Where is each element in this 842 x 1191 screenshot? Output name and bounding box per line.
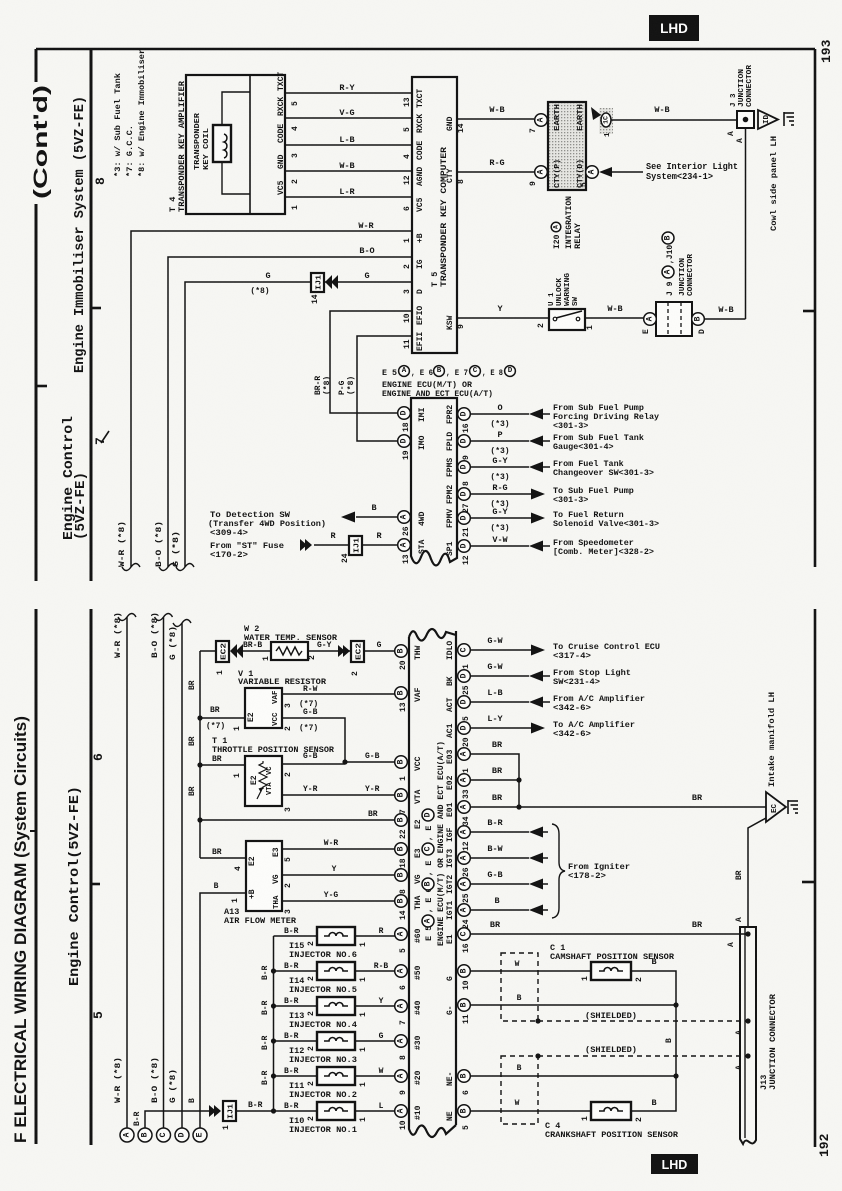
wire L-Y AC1 to A/C amplifier <box>470 727 531 729</box>
ground ID triangle cowl side panel <box>758 110 778 129</box>
wire L-B ACT from A/C amplifier <box>470 701 529 703</box>
crankshaft position sensor C4 box <box>591 1102 631 1120</box>
bottom ECU left pin VAF 13(B) <box>395 687 408 700</box>
wire BR bus to ECU E2 <box>200 819 395 821</box>
wire V-G T4 pin 4 to T5 pin 5 <box>285 117 412 119</box>
tick right rule y311 <box>803 310 815 313</box>
check connector EC2 no.1 <box>200 650 216 652</box>
amplifier T4 outer box <box>186 75 285 214</box>
frame left outer rule upper <box>35 49 38 581</box>
LHD box bottom <box>651 1154 698 1174</box>
ECU pin IMI 18(D) <box>398 407 411 420</box>
J9 pin E(A) <box>644 313 657 326</box>
continuation wire G (*8) bottom section <box>181 623 183 1128</box>
bottom ECU left pin #20 9(A) <box>395 1070 408 1083</box>
frame top rule <box>36 48 815 51</box>
wire W-B relay to J3 <box>611 119 737 121</box>
air flow meter A13 box <box>246 841 282 911</box>
frame left outer rule lower <box>35 609 38 1144</box>
wire BR E1 to J13 <box>470 933 748 935</box>
wire BR E01 to EC ground <box>470 806 766 808</box>
shielded dashed drain C1 to J13 <box>538 1020 748 1022</box>
relay pin 5A CTY(D) <box>586 166 599 179</box>
switch U1 unlock warning sw box <box>549 309 585 330</box>
injector supply B-R bus <box>273 936 275 1111</box>
bottom ECU box with torn top and bottom <box>409 629 456 1137</box>
wire G from T5 D through IJ1 down left side <box>324 281 412 283</box>
V1 pin 2 wire G-B (*7) <box>282 718 345 762</box>
ECU pin 4WD 26(A) <box>398 511 411 524</box>
computer T5 box <box>412 77 457 353</box>
wire J3 down to J9 row <box>745 128 747 319</box>
ECU pin STA 13(A) <box>398 539 411 552</box>
tick outer rule y386 <box>36 385 47 388</box>
shielded dashed drain C4 to J13 <box>538 1055 748 1057</box>
junction connector IJ1 (ST fuse) <box>349 536 362 555</box>
V1 pin 3 wire R-W (*7) to VAF <box>282 693 395 695</box>
wire W NE pin to crankshaft sensor <box>470 1110 591 1112</box>
wire W-B T4 pin 2 to T5 pin 12 <box>285 170 412 172</box>
wire R-Y T4 pin 5 to T5 pin 13 <box>285 92 412 94</box>
brace grouping igniter wires <box>552 824 565 918</box>
relay pin 9A <box>535 166 548 179</box>
wire R-G T5 CTY to relay CTY(P) <box>457 171 534 173</box>
tick right rule y882 <box>802 881 815 884</box>
wire BR-R from T5 EFIO to ECU IMI <box>330 311 412 413</box>
sidebar title (Cont'd) <box>28 82 56 204</box>
wire end hook B-O <box>159 564 177 571</box>
frame left inner rule upper <box>90 49 93 581</box>
A13 pin 2 wire Y to VG <box>282 874 395 876</box>
wire R from ST fuse through IJ1 to ECU STA <box>314 544 349 546</box>
bottom ECU left pin THA 14(B) <box>395 895 408 908</box>
bottom ECU left pin #10 10(A) <box>395 1105 408 1118</box>
A13 pin 5 wire W-R to E3 <box>282 848 395 850</box>
wire B to detection SW from ECU 4WD <box>356 516 397 518</box>
junction connector IJ1 (injector feed) <box>236 1110 274 1112</box>
ECU fragment box with torn bottom <box>411 398 457 566</box>
wire L-B T4 pin 3 to T5 pin 4 <box>285 144 412 146</box>
wire end hook G <box>176 564 194 571</box>
wire W-B T5 GND to relay EARTH <box>457 118 534 120</box>
relay pin 7A <box>535 114 548 127</box>
injector I11 INJECTOR NO.2 <box>274 1075 318 1077</box>
frame right rule upper <box>814 49 817 567</box>
arrow from ST fuse <box>300 539 312 551</box>
wire G-W BK from stop light <box>470 675 529 677</box>
junction connector J3 box <box>737 111 754 128</box>
junction connector IJ1 (top) <box>311 273 324 292</box>
bottom ECU left pin #60 5(A) <box>395 928 408 941</box>
J9 pin D(B) <box>692 313 705 326</box>
wire BR E02 join <box>470 779 519 781</box>
wire G EC2 to THW <box>364 650 395 652</box>
bottom ECU left pin VG 8(B) <box>395 869 408 882</box>
injector I12 INJECTOR NO.3 <box>274 1040 318 1042</box>
arrow into IJ1 <box>325 275 338 289</box>
wire G-B IGT2 from igniter <box>470 883 529 885</box>
continuation wire B-O (*8) bottom section <box>163 617 165 1128</box>
bottom ECU left pin VTA 7(B) <box>395 789 408 802</box>
wire end hook W-R <box>122 564 140 571</box>
A13 pin 4 wire BR to bus <box>200 857 246 859</box>
T1 pin 3 wire Y-R to VTA <box>282 794 395 796</box>
T1 pin 2 wire G-B to VCC <box>282 763 345 765</box>
bottom ECU left pin #30 8(A) <box>395 1035 408 1048</box>
wire BR E03 to ground bus <box>470 754 519 807</box>
wire P-G from T5 EFII to ECU IMO <box>357 336 412 441</box>
wire B-R from IJ1 to circle B <box>145 1111 210 1128</box>
ground triangle EC intake manifold LH <box>766 792 786 822</box>
sensor ground BR bus <box>199 651 201 858</box>
wire B from A13 +B to circle E <box>200 893 246 1128</box>
wire L-R T4 pin 1 to T5 pin 6 <box>285 196 412 198</box>
T1 pin 1 wire BR to bus <box>200 764 245 766</box>
wire B NE- pin <box>470 1075 676 1077</box>
injector I14 INJECTOR NO.5 <box>274 970 318 972</box>
shield dashed box C4 <box>501 1056 538 1124</box>
injector I10 INJECTOR NO.1 <box>274 1110 318 1112</box>
connector circle D <box>175 1128 189 1142</box>
shield dashed box C1 <box>501 953 538 1021</box>
wire B G- pin <box>470 1004 676 1006</box>
transponder key coil wire loop <box>222 92 250 125</box>
connector circle A <box>120 1128 134 1142</box>
bottom ECU left pin #50 6(A) <box>395 965 408 978</box>
tick outer rule y831 <box>30 830 36 832</box>
injector I13 INJECTOR NO.4 <box>274 1005 318 1007</box>
wire B-R IGF from igniter <box>470 831 529 833</box>
continuation wire W-R (*8) bottom section <box>126 617 128 1128</box>
T1 potentiometer symbol <box>259 761 267 789</box>
bottom ECU left pin E2 22(B) <box>395 814 408 827</box>
bottom ECU left pin E3 18(B) <box>395 843 408 856</box>
wire G continues left and down <box>185 282 311 567</box>
arrow into EC2 <box>230 644 243 658</box>
connector circle B <box>138 1128 152 1142</box>
arrow into EC2 no.2 <box>338 645 350 657</box>
A13 pin 3 wire Y-G to THA <box>282 900 395 902</box>
tick inner rule y884 <box>91 883 100 886</box>
wire B-W IGT3 from igniter <box>470 857 529 859</box>
transponder key coil component box <box>213 125 231 162</box>
V1 pin 1 wire BR (*7) to bus <box>200 717 245 719</box>
bottom ECU left pin #40 7(A) <box>395 1000 408 1013</box>
check connector EC2 no.2 <box>351 641 364 662</box>
T4 internal divider <box>249 75 251 214</box>
ECU pin IMO 19(D) <box>398 435 411 448</box>
relay right earth pin 1C with arrow <box>591 107 601 120</box>
stray mark near frame <box>101 431 109 443</box>
relay I20 integration relay shaded box <box>548 102 586 190</box>
wire G-Y W2 to EC2 no.2 <box>308 650 351 652</box>
junction connector J9/J10 box <box>656 302 692 336</box>
frame left inner rule lower <box>90 609 93 1145</box>
see interior light arrow and text <box>599 167 612 177</box>
wire W-B U1 to J9 <box>585 317 644 319</box>
wire W-B J9 to J3 riser <box>704 318 746 320</box>
tick inner rule y308 <box>91 307 101 310</box>
bottom ECU left pin THW 20(B) <box>395 645 408 658</box>
camshaft position sensor C1 box <box>591 962 631 980</box>
junction connector J13 box <box>740 927 756 1144</box>
frame right rule lower <box>814 609 817 1147</box>
connector circle E <box>193 1128 207 1142</box>
wire W G pin to camshaft sensor <box>470 970 591 972</box>
wire B-O from T5 IG down left side <box>168 257 412 567</box>
wire Y T5 KSW to U1 <box>457 317 549 319</box>
LHD box top <box>649 15 699 41</box>
wire BR down from EC to J13 pin A <box>748 818 766 927</box>
wire B IGT1 from igniter <box>470 909 529 911</box>
injector I15 INJECTOR NO.6 <box>274 935 318 937</box>
connector circle C <box>157 1128 171 1142</box>
wire W-R from T5 +B down left side <box>131 231 412 567</box>
wire G-W IDLO to cruise control ECU <box>470 649 531 651</box>
arrow into IJ1 <box>209 1105 221 1117</box>
bottom ECU left pin VCC 1(B) <box>395 756 408 769</box>
